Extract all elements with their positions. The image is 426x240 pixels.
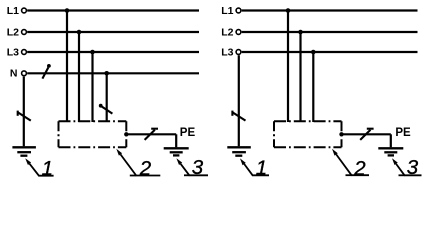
svg-text:PE: PE [395,127,411,139]
svg-text:L3: L3 [7,46,19,58]
svg-text:L2: L2 [221,26,233,38]
svg-text:2: 2 [139,157,152,180]
svg-text:N: N [10,68,18,80]
svg-text:L3: L3 [221,46,233,58]
svg-text:2: 2 [353,157,366,180]
svg-text:3: 3 [407,156,419,179]
svg-text:PE: PE [180,127,196,139]
svg-text:L1: L1 [7,5,19,17]
svg-text:3: 3 [192,156,204,179]
svg-text:L2: L2 [7,26,19,38]
svg-text:L1: L1 [221,5,233,17]
svg-text:1: 1 [42,157,53,180]
svg-text:1: 1 [256,157,267,180]
